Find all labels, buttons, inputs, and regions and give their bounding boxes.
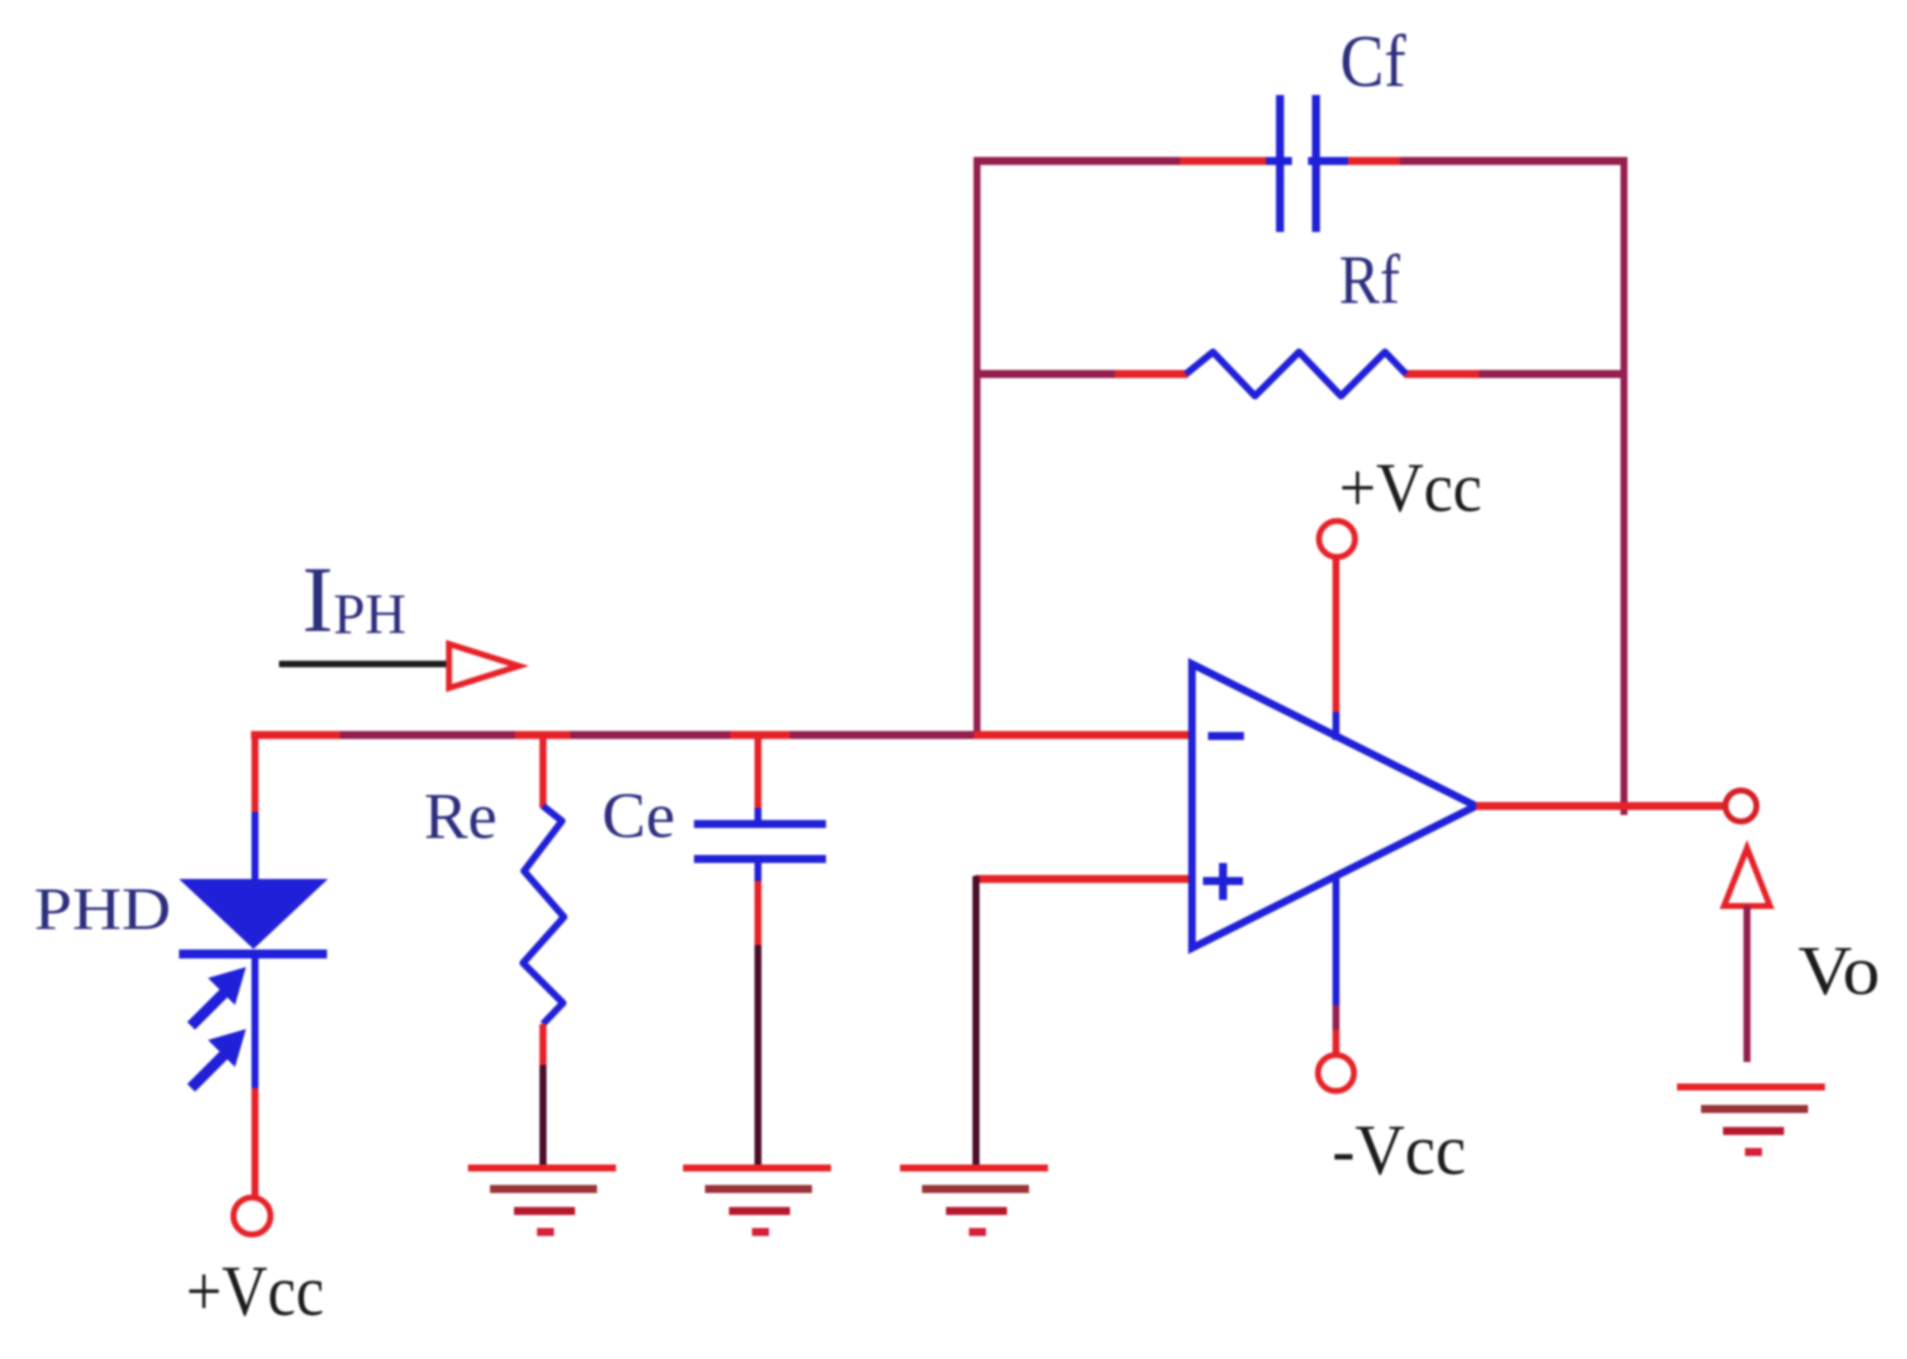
svg-text:Rf: Rf [1339, 242, 1401, 319]
terminal Vo [1726, 791, 1757, 822]
wire: Vo arrow stem [1744, 906, 1751, 1062]
photodiode PHD anode wire [252, 735, 259, 879]
photodiode cathode wire [252, 957, 259, 1196]
svg-text:Re: Re [424, 780, 497, 853]
capacitor Cf [1266, 95, 1348, 232]
wire: -Vcc supply to op-amp [1333, 876, 1340, 1055]
svg-text:Cf: Cf [1340, 21, 1406, 103]
ground (Ce) [683, 1168, 831, 1232]
wire: main input net (inverting node) [251, 731, 1192, 739]
ground (Vo) [1677, 1087, 1825, 1152]
wire: IPH current arrow line [279, 661, 449, 668]
capacitor Ce top wire [755, 735, 762, 810]
terminal +Vcc (op-amp) [1319, 521, 1355, 557]
wire: feedback Rf branch [977, 370, 1627, 378]
wire: feedback top net (Cf branch) [974, 157, 1628, 815]
resistor Re [523, 806, 564, 1024]
ground (Re) [468, 1168, 616, 1232]
op-amp U1 [1192, 664, 1476, 948]
terminal +Vcc (photodiode) [234, 1198, 271, 1235]
wire: +Vcc supply to op-amp [1333, 557, 1340, 740]
resistor Re top wire [540, 735, 547, 808]
photodiode light arrow 2 [195, 1029, 246, 1084]
photodiode PHD [179, 879, 328, 954]
svg-text:+Vcc: +Vcc [186, 1251, 324, 1331]
capacitor Ce [694, 824, 826, 859]
photodiode light arrow 1 [195, 967, 246, 1022]
terminal -Vcc (op-amp) [1318, 1055, 1354, 1091]
svg-text:-Vcc: -Vcc [1332, 1110, 1466, 1190]
resistor Re bottom wire [540, 1024, 547, 1167]
ground (non-inverting input) [900, 1168, 1048, 1232]
resistor Rf [1186, 352, 1406, 396]
node: Vo arrow head [1724, 848, 1770, 906]
wire: output net [1476, 802, 1723, 810]
svg-text:+Vcc: +Vcc [1339, 450, 1482, 527]
wire: non-inverting input net [975, 876, 1192, 1167]
svg-text:Ce: Ce [602, 780, 675, 852]
op-amp plus pin [1203, 863, 1243, 900]
op-amp minus pin [1208, 732, 1244, 740]
capacitor Ce bottom wire [755, 861, 762, 1167]
svg-text:PHD: PHD [34, 876, 171, 942]
node: IPH arrowhead [449, 644, 519, 688]
svg-text:Vo: Vo [1798, 933, 1880, 1010]
